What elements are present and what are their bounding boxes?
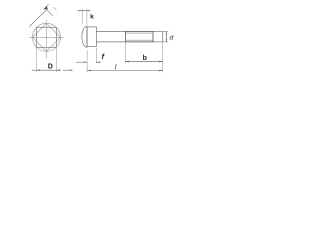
- f extension line left (head face): [86, 50, 88, 72]
- dome head: [82, 26, 87, 47]
- shank bottom line: [96, 41, 125, 43]
- d dimension line: [165, 31, 167, 42]
- vertical centerline: [45, 20, 47, 59]
- f dimension line right: [96, 61, 101, 63]
- shank bottom line after thread: [153, 41, 163, 43]
- horizontal centerline: [29, 36, 64, 38]
- D arrow left: [36, 69, 40, 71]
- f arrow right outside: [96, 62, 99, 63]
- b dimension line: [125, 61, 162, 63]
- f extension line right (neck end): [95, 48, 97, 63]
- k arrow right outside: [87, 10, 90, 11]
- axis-aligned square: [36, 27, 56, 47]
- shank top line: [96, 30, 125, 32]
- head face line: [86, 26, 88, 47]
- end extension line (shared b/l): [162, 42, 164, 72]
- leader tail arrow: [70, 69, 74, 71]
- leader line: [29, 9, 48, 27]
- l arrow left: [87, 70, 91, 72]
- thread minor line bottom: [125, 39, 153, 41]
- leader tail: [47, 4, 49, 6]
- square neck rotated 45 (diamond): [32, 23, 60, 51]
- b extension line left: [124, 42, 126, 63]
- square neck side: [87, 27, 96, 47]
- l arrow right: [159, 70, 163, 72]
- D extension line right: [55, 48, 57, 72]
- k extension line right: [86, 9, 88, 26]
- thread minor line top: [125, 32, 153, 34]
- svg-text:b: b: [143, 55, 147, 62]
- svg-text:k: k: [90, 13, 94, 20]
- f dimension line left: [76, 61, 87, 63]
- b arrow right: [159, 61, 163, 63]
- k arrow left outside: [79, 10, 82, 11]
- head circle: [32, 23, 60, 51]
- D extension line left: [35, 48, 37, 72]
- svg-text:D: D: [48, 64, 53, 71]
- thread box: [125, 31, 153, 42]
- l dimension line: [87, 70, 163, 72]
- svg-text:d: d: [170, 35, 174, 42]
- k dimension line: [77, 10, 89, 12]
- d arrow top: [166, 31, 167, 34]
- D dimension line: [32, 69, 61, 71]
- extension tick 1: [46, 9, 53, 16]
- bolt end line: [162, 31, 164, 42]
- f arrow left outside: [84, 62, 87, 63]
- d extension tick top: [163, 30, 169, 32]
- square width leader arrow: [43, 6, 48, 10]
- shank top line after thread: [153, 30, 163, 32]
- b arrow left: [125, 61, 129, 63]
- extension tick 2: [53, 7, 56, 10]
- d arrow bottom: [166, 39, 167, 42]
- k extension line left: [81, 9, 83, 24]
- D arrow right: [57, 69, 61, 71]
- d extension tick bottom: [163, 41, 169, 43]
- leader tail toward l dim: [63, 69, 70, 71]
